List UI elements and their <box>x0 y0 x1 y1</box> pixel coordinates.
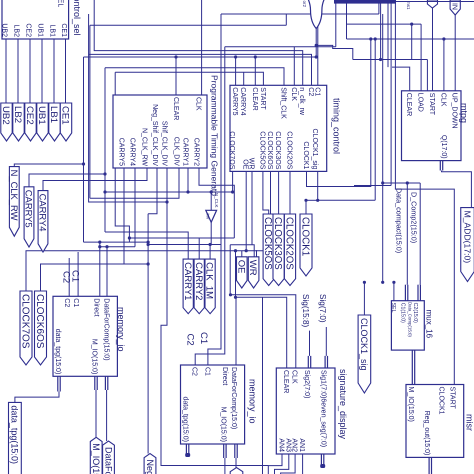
junction 23 <box>442 37 445 40</box>
wire net carry1 flag <box>105 232 188 259</box>
block memory_io 2 <box>181 365 258 444</box>
svg-text:misr: misr <box>464 414 474 431</box>
junction 26 <box>369 37 372 40</box>
junction 10 <box>229 293 232 296</box>
svg-text:AN1: AN1 <box>298 438 305 452</box>
wire net left vertical D <box>115 72 129 242</box>
wire mem1 m_io link <box>95 390 97 437</box>
svg-text:LOAD: LOAD <box>417 93 424 112</box>
wire net left vertical B <box>83 57 85 242</box>
inverter buffer U-inv <box>205 210 216 222</box>
or-gate U-or <box>302 0 327 29</box>
bus seven_seg <box>321 454 325 466</box>
wire net left vertical A <box>89 25 91 198</box>
wire or out <box>315 29 317 58</box>
wire mem2 dataforcomp stub <box>235 297 237 365</box>
svg-text:CLEAR: CLEAR <box>172 97 179 120</box>
wire an3 <box>275 454 289 474</box>
block signature_display <box>276 368 347 454</box>
wire net left upper corner <box>285 14 287 25</box>
junction 29 <box>315 55 318 58</box>
junction 6 <box>147 243 150 246</box>
svg-text:D_Comp2(15:0): D_Comp2(15:0) <box>410 192 419 243</box>
port flag LB2 <box>12 103 24 141</box>
svg-text:CLK_DIV: CLK_DIV <box>172 137 179 167</box>
wire net C1 drop <box>317 14 319 85</box>
bus mem2 data_tpg stub <box>186 444 190 455</box>
wire an2 <box>281 454 296 474</box>
wire control_sel pin 5 <box>53 39 55 103</box>
wire net v380 <box>380 4 382 60</box>
svg-text:Neg_Shif_CLK_DIV: Neg_Shif_CLK_DIV <box>145 460 155 474</box>
port flag M_IO <box>90 437 102 474</box>
wire net h46 <box>225 46 336 48</box>
junction clear-ptg <box>174 55 177 58</box>
wire net wr link <box>230 245 254 257</box>
wire net start trunk <box>115 72 263 85</box>
svg-text:CE2: CE2 <box>24 23 31 37</box>
svg-text:Data_Comp(15:0): Data_Comp(15:0) <box>408 302 413 337</box>
wire clock1 flag drop <box>305 200 307 214</box>
svg-text:inv: inv <box>205 214 210 221</box>
wire mem2 m_io link <box>224 458 226 474</box>
bus d_comp2 stub <box>417 285 421 301</box>
wire net h54 <box>89 54 312 85</box>
wire ptg neg_shif out <box>148 168 157 214</box>
svg-text:CE1: CE1 <box>60 23 67 37</box>
svg-text:M_IO(15:0): M_IO(15:0) <box>90 339 97 374</box>
svg-text:CLEAR: CLEAR <box>405 93 412 116</box>
wire net C2 vert route <box>195 47 225 365</box>
svg-text:LB1: LB1 <box>48 106 59 123</box>
svg-text:CLK: CLK <box>291 370 298 384</box>
wire sig clear route <box>236 251 287 368</box>
svg-text:C1: C1 <box>203 367 210 376</box>
junction 11 <box>234 296 237 299</box>
svg-text:C1: C1 <box>72 298 79 307</box>
svg-text:WR: WR <box>247 260 258 276</box>
svg-text:CE2: CE2 <box>24 106 35 125</box>
svg-text:N_CLK_RW: N_CLK_RW <box>9 170 20 221</box>
bus mem1 m_io stub <box>94 376 98 390</box>
wire mtpg clear <box>392 67 410 91</box>
wire tc clock2os stub <box>289 171 291 214</box>
junction 33 <box>98 245 101 248</box>
svg-text:CARRY1: CARRY1 <box>182 262 193 300</box>
wire net trunk left end <box>256 250 258 283</box>
svg-text:Sig1(7:0)6even_seg(7:0): Sig1(7:0)6even_seg(7:0) <box>319 370 326 447</box>
wire net C1 trunk <box>221 13 379 15</box>
svg-text:mtpg: mtpg <box>459 103 469 123</box>
junction 1 <box>82 162 85 165</box>
wire net v427 <box>426 60 428 91</box>
svg-text:START: START <box>259 87 266 110</box>
junction 16 <box>210 190 213 193</box>
svg-text:LB2: LB2 <box>12 106 23 123</box>
junction 18 <box>363 281 366 284</box>
port flag CE2 <box>24 103 36 141</box>
svg-text:CLOCK5OS: CLOCK5OS <box>258 131 265 169</box>
junction 34 <box>105 245 108 248</box>
port flag CLOCK5OS <box>262 214 274 286</box>
svg-text:signature_display: signature_display <box>338 369 348 440</box>
wire net dataforcomp drop <box>106 247 108 297</box>
bus mux out <box>412 350 416 384</box>
wire ptg nclkrw out <box>43 168 147 191</box>
wire sig clk route <box>230 245 296 368</box>
svg-text:data_tpg(15:0): data_tpg(15:0) <box>54 329 61 375</box>
junction 19 <box>381 281 384 284</box>
svg-text:C2: C2 <box>185 334 196 346</box>
bus sig1 <box>324 356 328 368</box>
junction 28 <box>315 44 318 47</box>
junction 14 <box>103 190 106 193</box>
svg-text:n_clk_rw: n_clk_rw <box>298 87 305 116</box>
svg-text:Neg_Shif_CLK_DIV: Neg_Shif_CLK_DIV <box>151 104 158 166</box>
wire net v335 <box>335 4 337 47</box>
junction 30 <box>254 55 257 58</box>
svg-text:SEL: SEL <box>56 0 63 7</box>
svg-text:C2: C2 <box>63 298 70 307</box>
junction 3 <box>165 200 168 203</box>
block control_sel <box>2 0 69 39</box>
svg-text:CLOCK2OS: CLOCK2OS <box>284 217 295 270</box>
wire mtpg start <box>432 8 434 91</box>
svg-text:AN4: AN4 <box>277 438 284 452</box>
block misr <box>406 385 474 458</box>
svg-text:DataForComp(15:0): DataForComp(15:0) <box>102 298 109 360</box>
bus mem1 dataforcomp stub <box>105 376 109 390</box>
svg-text:UB2: UB2 <box>0 106 11 125</box>
wire net clock6os link <box>41 264 149 291</box>
svg-text:Data_compact(15:0): Data_compact(15:0) <box>394 188 403 253</box>
wire net h24 <box>347 23 422 25</box>
svg-text:DataForComp(15:0): DataForComp(15:0) <box>230 367 237 429</box>
svg-text:CLK_1M: CLK_1M <box>204 262 215 299</box>
svg-text:C1: C1 <box>198 332 209 344</box>
wire net clk tc <box>293 47 295 86</box>
wire net carry2 flag <box>129 238 199 259</box>
svg-text:START: START <box>449 387 456 410</box>
bus mem1 data_tpg stub <box>57 376 61 391</box>
svg-text:CLEAR: CLEAR <box>251 87 258 110</box>
wire net h59 <box>353 59 428 61</box>
wire ptg carry4 out <box>134 168 136 247</box>
svg-text:CLK: CLK <box>194 97 201 111</box>
svg-text:SEL: SEL <box>390 303 396 313</box>
wire inv in <box>210 192 212 210</box>
wire ptg clk <box>201 0 203 95</box>
wire tc clock7os stub <box>232 171 234 192</box>
svg-text:OE: OE <box>235 260 246 274</box>
junction 17 <box>231 190 234 193</box>
svg-text:M_ADD(17:0): M_ADD(17:0) <box>462 211 472 264</box>
wire control_sel pin 1 <box>5 39 7 103</box>
bus misr reg_out <box>428 457 432 474</box>
svg-text:CARRY5: CARRY5 <box>24 190 35 228</box>
wire sig2 bus <box>309 331 311 356</box>
junction 13 <box>316 199 319 202</box>
svg-text:M_IO(15:0): M_IO(15:0) <box>219 407 226 442</box>
svg-text:CARRY5: CARRY5 <box>117 138 124 166</box>
wire mem1 c1 <box>77 252 79 296</box>
wire control_sel pin 4 <box>41 39 43 103</box>
svg-text:mux_16: mux_16 <box>425 310 434 339</box>
wire net carry4 tc stub <box>243 72 245 85</box>
svg-text:CLOCK1: CLOCK1 <box>299 217 310 256</box>
wire net left vertical C <box>104 68 106 232</box>
wire net v382 <box>382 14 384 282</box>
port flag CE1 <box>60 103 72 141</box>
wire net shif_clk trunk <box>105 68 284 86</box>
block U_PTG <box>113 75 219 196</box>
port flag DataForComp <box>103 441 115 474</box>
svg-text:Programmable Timing Generato: Programmable Timing Generato <box>209 75 219 196</box>
svg-text:CARRY4: CARRY4 <box>239 87 246 115</box>
port flag IN <box>450 0 460 15</box>
bus data_compact stub <box>405 285 409 301</box>
wire net clock7os link <box>26 171 271 291</box>
wire net v346 <box>346 4 348 40</box>
svg-text:CLOCK6OS: CLOCK6OS <box>266 131 273 169</box>
svg-text:control_sel: control_sel <box>72 0 82 36</box>
svg-text:CLOCK7OS: CLOCK7OS <box>19 294 30 349</box>
wire net n_clk_rw trunk <box>94 0 303 85</box>
svg-text:DataForComp(15:0): DataForComp(15:0) <box>103 447 113 474</box>
svg-text:Direct: Direct <box>92 298 99 316</box>
port flag DataForComp2 <box>230 468 243 474</box>
wire net top right <box>396 1 474 3</box>
wire h200 left <box>306 199 318 201</box>
block mtpg <box>402 91 469 161</box>
svg-text:ms1: ms1 <box>406 1 411 10</box>
wire an4 <box>268 454 282 474</box>
svg-text:C1(15:0): C1(15:0) <box>400 303 406 323</box>
wire control_sel pin 2 <box>17 39 19 103</box>
port flag CLOCK1_sig <box>358 315 371 393</box>
wire tc clear stub <box>254 57 256 85</box>
port flag CLK_1M <box>204 259 216 314</box>
port flag N_CLK_RW <box>9 167 20 237</box>
wire tc oe stub <box>245 171 247 250</box>
wire net clock1sig up <box>374 39 376 200</box>
wire net oe flag drop <box>241 251 243 257</box>
svg-text:CLOCK7OS: CLOCK7OS <box>228 131 235 169</box>
svg-text:C2: C2 <box>61 271 72 283</box>
wire net C1 vert route <box>208 14 221 365</box>
svg-text:C2: C2 <box>307 87 314 96</box>
wire net v411 <box>411 24 413 59</box>
wire stub top <box>378 0 380 14</box>
port flag CLOCK6OS <box>34 291 47 365</box>
wire inv out <box>210 222 212 244</box>
wire flag carry5 link <box>29 174 105 187</box>
svg-text:CARRY2: CARRY2 <box>193 262 204 300</box>
wire net v392 <box>387 0 389 67</box>
wire flag n_clk_rw link <box>14 164 83 167</box>
svg-text:N_CLK: N_CLK <box>214 193 219 208</box>
wire mem1 dataforcomp link <box>106 390 108 441</box>
svg-text:START: START <box>428 93 435 116</box>
svg-text:CLOCK2OS: CLOCK2OS <box>285 131 292 169</box>
wire mem2 dataforcomp link <box>235 458 237 468</box>
svg-text:LB1: LB1 <box>48 25 55 38</box>
junction 15 <box>186 190 189 193</box>
svg-text:CLK: CLK <box>290 87 297 101</box>
svg-text:CE1: CE1 <box>60 106 71 125</box>
svg-text:CLOCK3OS: CLOCK3OS <box>272 217 283 270</box>
wire sig drop left <box>262 297 264 474</box>
svg-text:CLOCK5OS: CLOCK5OS <box>262 217 273 270</box>
wire clock1_sig flag link <box>363 282 365 315</box>
svg-text:M_IO(15:0): M_IO(15:0) <box>407 387 414 422</box>
wire misr start <box>395 0 454 385</box>
junction 27 <box>374 37 377 40</box>
port flag CARRY5 <box>24 187 35 247</box>
svg-text:CARRY4: CARRY4 <box>128 138 135 166</box>
wire net h185 <box>354 185 391 187</box>
wire net h39 <box>347 38 474 40</box>
svg-text:memory_io: memory_io <box>116 307 126 352</box>
wire mtpg q jog <box>442 171 472 208</box>
port flag CLOCK1 <box>299 214 312 276</box>
junction 7 <box>147 262 150 265</box>
wire data_compact <box>406 183 408 285</box>
bus mem2 dataforcomp stub <box>234 444 238 458</box>
port flag CLOCK7OS <box>19 291 32 365</box>
svg-text:CLEAR: CLEAR <box>282 370 289 393</box>
svg-text:CARRY4: CARRY4 <box>38 194 49 232</box>
port flag OE <box>235 257 247 288</box>
junction 25 <box>406 181 409 184</box>
wire tc wr stub <box>251 171 253 244</box>
wire control_sel pin 6 <box>65 39 67 103</box>
wire mtpg updown <box>454 15 456 91</box>
port flag CARRY4 <box>38 191 49 252</box>
wire tc clock5os jog <box>263 171 269 214</box>
port flag small <box>427 0 437 8</box>
svg-text:memory_io: memory_io <box>247 379 257 424</box>
wire control_sel pin 3 <box>29 39 31 103</box>
wire net direct drop <box>99 242 101 296</box>
wire an1 <box>302 454 304 474</box>
wire net long drop to Neg flag <box>147 214 149 454</box>
bus mem2 data_tpg cap <box>185 453 190 457</box>
svg-text:CLOCK3OS: CLOCK3OS <box>274 131 281 169</box>
svg-text:Reg_out(15:0): Reg_out(15:0) <box>423 411 430 456</box>
svg-text:Shift_CLK: Shift_CLK <box>279 87 286 119</box>
bus mem2 m_io stub <box>223 444 227 458</box>
wire mux sel <box>393 282 395 300</box>
wire net clk_div route <box>90 168 179 198</box>
svg-text:AN3: AN3 <box>284 438 291 452</box>
svg-text:Sig(15:8): Sig(15:8) <box>301 294 310 327</box>
port flag WR <box>247 257 259 288</box>
svg-text:CARRY2: CARRY2 <box>192 138 199 166</box>
bus mtpg q stub <box>440 161 444 171</box>
junction 12 <box>304 199 307 202</box>
svg-text:OE: OE <box>242 159 249 169</box>
wire net h183 buses <box>383 182 421 184</box>
junction 35 <box>209 243 212 246</box>
wire mtpg load <box>420 24 422 91</box>
wire net h246 <box>100 246 135 248</box>
svg-text:M_IO(15:0): M_IO(15:0) <box>91 443 101 474</box>
wire ptg carry5 out <box>123 168 125 264</box>
port flag UB2 <box>0 103 12 141</box>
block timing_control <box>230 85 341 171</box>
port flag CARRY1 <box>182 259 194 314</box>
svg-text:CLOCK1_sig: CLOCK1_sig <box>311 129 318 170</box>
port flag LB1 <box>48 103 60 141</box>
block mux_16 <box>391 301 433 350</box>
svg-text:Sig(7:0): Sig(7:0) <box>318 294 327 323</box>
svg-text:C2: C2 <box>191 367 198 376</box>
port flag UB1 <box>36 103 48 141</box>
port flag data_tpg <box>9 402 22 474</box>
port flag CLOCK3OS <box>272 214 284 286</box>
wire d_comp2 <box>419 183 421 285</box>
junction 32 <box>98 241 101 244</box>
wire net left upper <box>90 24 286 26</box>
wire net long left drop <box>161 202 268 466</box>
wire net v391 <box>390 0 392 186</box>
svg-text:or2: or2 <box>302 1 307 8</box>
junction 9 <box>245 249 248 252</box>
wire tc clock1sig net <box>318 171 376 200</box>
wire net clk1m flag <box>148 245 210 260</box>
svg-text:AN2: AN2 <box>291 438 298 452</box>
svg-text:CLOCK1: CLOCK1 <box>302 141 309 169</box>
svg-text:timing_control: timing_control <box>331 98 341 154</box>
wire ptg clear stub <box>175 57 177 95</box>
svg-text:N_CLK_RW: N_CLK_RW <box>140 128 147 166</box>
junction 31 <box>234 55 237 58</box>
svg-text:UB1: UB1 <box>36 23 43 37</box>
block memory_io 1 <box>53 296 126 376</box>
bus bar top <box>334 0 396 4</box>
wire net h244 ext <box>210 244 221 246</box>
port flag CARRY2 <box>193 259 205 314</box>
svg-text:CARRY5: CARRY5 <box>231 87 238 115</box>
wire ptg carry2 out <box>199 168 234 238</box>
wire mtpg clk <box>443 39 445 91</box>
wire net staircase <box>316 45 353 59</box>
bus seven_seg cap <box>320 464 325 468</box>
junction 5 <box>147 241 150 244</box>
wire net shif2 route <box>89 14 167 202</box>
svg-text:data_tpg(15:0): data_tpg(15:0) <box>10 405 20 464</box>
svg-text:CLOCK6OS: CLOCK6OS <box>34 294 45 349</box>
svg-text:CLOCK1_sig: CLOCK1_sig <box>359 318 369 371</box>
svg-text:data_tpg(15:0): data_tpg(15:0) <box>182 396 189 442</box>
wire net h238 <box>129 237 234 239</box>
wire net h192 <box>105 191 233 193</box>
svg-text:Sig2(7:0): Sig2(7:0) <box>303 370 310 398</box>
wire mem1 c2 <box>68 258 70 296</box>
junction 8 <box>234 249 237 252</box>
svg-text:UB2: UB2 <box>0 23 7 37</box>
wire tc clock1 net <box>307 39 371 187</box>
wire mem1 data_tpg jog <box>15 392 59 403</box>
wire ptg carry1 to inv <box>187 168 189 192</box>
svg-text:IN: IN <box>451 3 458 10</box>
junction 22 <box>379 58 382 61</box>
wire tc clock3os stub <box>278 171 280 214</box>
svg-text:CLOCK1: CLOCK1 <box>437 387 444 415</box>
junction 2 <box>103 172 106 175</box>
wire net h242 <box>84 241 149 243</box>
